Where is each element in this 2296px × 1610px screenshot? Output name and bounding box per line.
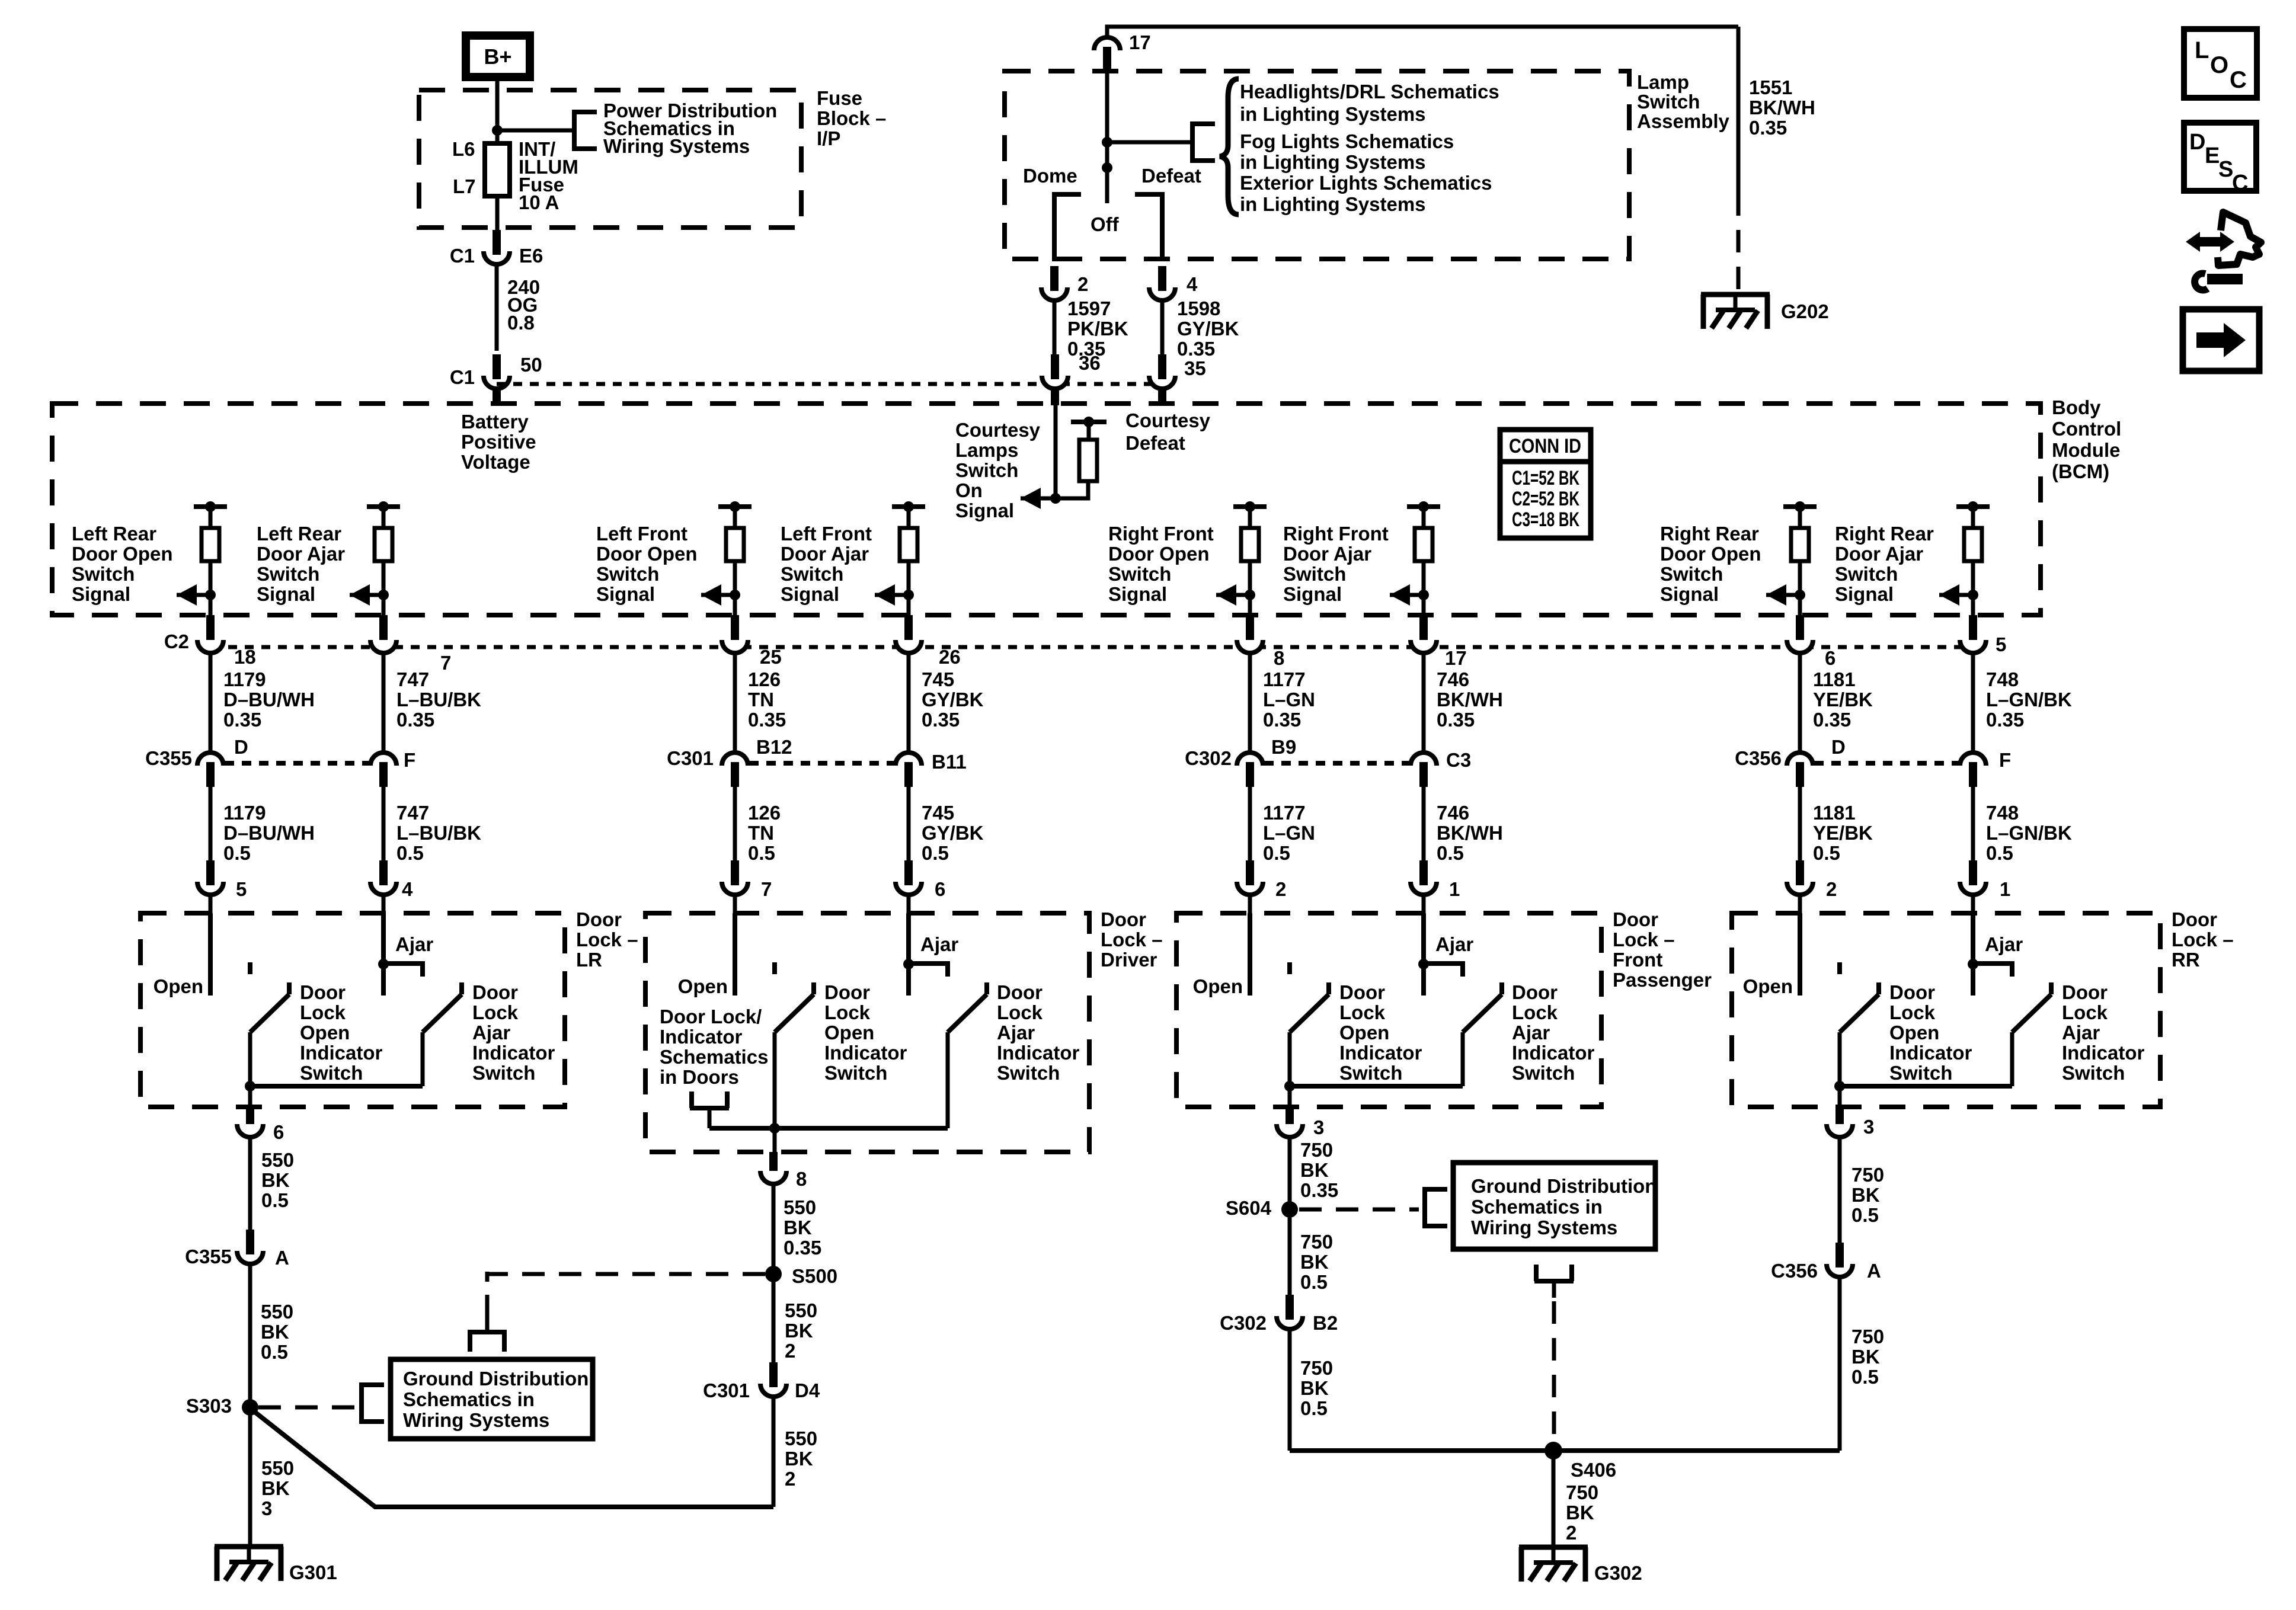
- open position tick (Driver): [772, 962, 777, 974]
- connector BCM pin 36: [1042, 354, 1068, 389]
- resistor column left rear door open switch signal: [177, 501, 227, 615]
- ajar position contact (Driver): [909, 964, 948, 977]
- label pin 8 below driver: [796, 1168, 807, 1190]
- svg-text:0.35: 0.35: [1986, 709, 2024, 731]
- svg-text:L6: L6: [452, 138, 475, 160]
- label pin 4 (door lock): [402, 878, 413, 900]
- svg-text:B2: B2: [1313, 1312, 1338, 1334]
- Body Control Module (BCM) dashed box: [52, 404, 2041, 615]
- label Door Lock/Indicator Schematics in Doors: [660, 1006, 768, 1088]
- svg-text:A: A: [1867, 1260, 1881, 1282]
- label Door Lock Ajar Indicator Switch: [997, 981, 1080, 1084]
- resistor column right rear door ajar switch signal: [1939, 501, 1990, 615]
- svg-text:BK: BK: [1300, 1159, 1329, 1181]
- label pin 7: [440, 652, 451, 674]
- dashed connector link 0: [225, 761, 369, 766]
- svg-text:TN: TN: [748, 689, 774, 710]
- pin stub C1-50 into BCM: [493, 386, 501, 405]
- svg-text:0.5: 0.5: [396, 842, 424, 864]
- svg-text:0.35: 0.35: [1300, 1179, 1338, 1201]
- label Door Lock Open Indicator Switch: [300, 981, 383, 1084]
- connector row D (right rear door ajar): [1960, 753, 1986, 787]
- door lock box Driver: [645, 913, 1089, 1152]
- dashed wire S500 reference v: [485, 1272, 490, 1315]
- svg-text:Schematics in: Schematics in: [403, 1388, 535, 1410]
- courtesy defeat pull-up bar: [1071, 420, 1107, 424]
- svg-text:in Lighting Systems: in Lighting Systems: [1240, 151, 1426, 173]
- svg-text:S500: S500: [792, 1265, 837, 1287]
- svg-text:YE/BK: YE/BK: [1813, 689, 1873, 710]
- svg-text:Open: Open: [1339, 1022, 1389, 1044]
- svg-text:Schematics: Schematics: [660, 1046, 768, 1068]
- svg-text:Signal: Signal: [781, 583, 839, 605]
- svg-text:2: 2: [785, 1340, 795, 1362]
- label G302: [1594, 1562, 1642, 1584]
- label Door Lock Open Indicator Switch: [1339, 981, 1422, 1084]
- wire left front door ajar row D to row E: [907, 787, 911, 864]
- svg-text:Ajar: Ajar: [1512, 1022, 1550, 1044]
- splice S604: [1281, 1201, 1298, 1218]
- wire 550 BK to C355 A: [248, 1137, 252, 1230]
- svg-text:BK/WH: BK/WH: [1437, 689, 1503, 710]
- svg-text:Switch: Switch: [1108, 563, 1171, 585]
- connector C355 pin A: [237, 1230, 263, 1264]
- svg-text:E6: E6: [519, 245, 543, 267]
- label F (C356): [1999, 749, 2011, 771]
- junction dot ajar wire (Driver): [903, 959, 914, 969]
- svg-text:Switch: Switch: [781, 563, 843, 585]
- svg-text:Switch: Switch: [1889, 1062, 1952, 1084]
- svg-text:Driver: Driver: [1101, 949, 1157, 971]
- svg-text:S303: S303: [186, 1395, 232, 1417]
- label C355 (A): [185, 1246, 232, 1267]
- label wire 126 TN 0.5: [748, 802, 781, 864]
- connector pin 3 (front passenger): [1277, 1124, 1303, 1137]
- svg-text:Switch: Switch: [1660, 563, 1723, 585]
- svg-text:7: 7: [761, 878, 772, 900]
- connector row D (left front door open): [722, 753, 748, 787]
- svg-text:Dome: Dome: [1023, 165, 1077, 187]
- svg-text:L–GN: L–GN: [1263, 689, 1315, 710]
- label 50: [520, 354, 542, 376]
- svg-text:C301: C301: [667, 747, 714, 769]
- svg-text:RR: RR: [2172, 949, 2200, 971]
- svg-text:BK/WH: BK/WH: [1437, 822, 1503, 844]
- svg-text:L–GN: L–GN: [1263, 822, 1315, 844]
- svg-text:I/P: I/P: [817, 127, 840, 149]
- wire left rear door ajar row C to row D: [382, 653, 386, 753]
- label Left Front Door Open Switch Signal: [596, 523, 698, 605]
- dome contact: [1054, 194, 1081, 261]
- resistor column right rear door open switch signal: [1766, 501, 1817, 615]
- junction dot switches (Driver): [769, 1123, 780, 1134]
- svg-text:in Lighting Systems: in Lighting Systems: [1240, 103, 1426, 125]
- door lock box LR: [140, 913, 565, 1107]
- label wire 550 BK 0.35: [784, 1196, 821, 1259]
- connector C1 pin E6: [484, 230, 510, 264]
- svg-text:Open: Open: [678, 975, 728, 997]
- wire pin 5 into door lock box: [209, 895, 213, 913]
- svg-text:1: 1: [1449, 878, 1460, 900]
- svg-text:Lock: Lock: [997, 1001, 1043, 1023]
- wire defeat resistor to junction: [1056, 481, 1088, 498]
- label Door Lock Ajar Indicator Switch: [1512, 981, 1595, 1084]
- svg-text:C: C: [2232, 171, 2248, 196]
- label Fuse Block - I/P: [817, 87, 886, 149]
- lamp switch junction dot upper: [1102, 137, 1112, 148]
- svg-text:BK: BK: [1566, 1502, 1594, 1523]
- label Ajar (RR): [1985, 933, 2023, 955]
- svg-text:Right Rear: Right Rear: [1660, 523, 1759, 545]
- svg-text:0.5: 0.5: [1263, 842, 1290, 864]
- label Right Front Door Ajar Switch Signal: [1283, 523, 1389, 605]
- svg-text:Open: Open: [1193, 975, 1243, 997]
- open position tick (RR): [1837, 962, 1842, 974]
- svg-text:Lock –: Lock –: [576, 929, 638, 950]
- svg-text:C1: C1: [450, 245, 475, 267]
- label 35: [1184, 357, 1206, 379]
- wire top feed to lamp switch: [1107, 27, 1738, 37]
- svg-text:25: 25: [760, 646, 782, 668]
- label pin 18: [234, 646, 256, 668]
- svg-text:126: 126: [748, 802, 781, 824]
- svg-text:Ajar: Ajar: [1435, 933, 1473, 955]
- junction dot switches (RR): [1834, 1081, 1845, 1092]
- wire pin 6 into door lock box: [907, 895, 911, 913]
- label wire 747 L–BU/BK 0.5: [396, 802, 481, 864]
- svg-text:Positive: Positive: [461, 431, 536, 453]
- splice S303: [242, 1399, 258, 1416]
- wire 1551 BK/WH: [1737, 27, 1741, 193]
- svg-text:17: 17: [1445, 647, 1467, 669]
- connector row D (left rear door ajar): [370, 753, 396, 787]
- wire ajar contact (Driver): [906, 913, 911, 996]
- label wire 750 BK 0.5 (RR upper): [1851, 1164, 1884, 1226]
- wire C302 B2 to bottom run: [1288, 1329, 1292, 1451]
- label S303: [186, 1395, 232, 1417]
- svg-text:BK: BK: [1851, 1346, 1880, 1368]
- pin stub right rear door open into BCM bottom: [1796, 615, 1804, 642]
- svg-text:1179: 1179: [223, 802, 266, 824]
- ground G302: [1519, 1547, 1588, 1582]
- label wire 748 L–GN/BK 0.35: [1986, 668, 2072, 731]
- svg-text:C1=52 BK: C1=52 BK: [1512, 467, 1579, 489]
- svg-text:C356: C356: [1771, 1260, 1818, 1282]
- junction dot switches (Passenger): [1284, 1081, 1295, 1092]
- svg-text:Door Open: Door Open: [1108, 543, 1210, 565]
- svg-text:BK: BK: [1300, 1251, 1329, 1273]
- svg-text:Indicator: Indicator: [997, 1042, 1080, 1064]
- splice S500: [765, 1266, 782, 1282]
- svg-text:Indicator: Indicator: [472, 1042, 555, 1064]
- label pin 6: [1825, 647, 1835, 669]
- svg-text:Defeat: Defeat: [1125, 432, 1185, 454]
- pin stub 8 below driver box: [769, 1152, 778, 1173]
- label D (C355): [234, 736, 248, 758]
- pin stub left front door ajar into BCM bottom: [904, 615, 913, 642]
- wire left rear door open row C to row D: [209, 653, 213, 753]
- label Courtesy Defeat: [1125, 409, 1211, 454]
- svg-text:Lock: Lock: [300, 1001, 346, 1023]
- bottom wire in box (LR): [250, 1084, 423, 1089]
- svg-text:Door: Door: [2172, 908, 2217, 930]
- svg-text:GY/BK: GY/BK: [922, 822, 984, 844]
- label G301: [289, 1561, 337, 1583]
- svg-text:Passenger: Passenger: [1613, 969, 1712, 991]
- svg-text:550: 550: [261, 1457, 294, 1479]
- svg-text:L–GN/BK: L–GN/BK: [1986, 689, 2072, 710]
- wire pin 7 into door lock box: [733, 895, 737, 913]
- wire right front door open row D to row E: [1248, 787, 1252, 864]
- connector door lock pin 6 (left front door ajar): [896, 860, 922, 895]
- icon box DESC: [2184, 123, 2256, 196]
- svg-text:Switch: Switch: [300, 1062, 363, 1084]
- label wire 750 BK 0.35: [1300, 1139, 1338, 1201]
- wire right rear door open row D to row E: [1798, 787, 1802, 864]
- label pin 1 (door lock): [1449, 878, 1460, 900]
- svg-text:Lock: Lock: [1512, 1001, 1558, 1023]
- svg-text:Courtesy: Courtesy: [1125, 409, 1211, 431]
- label C1 (E6): [450, 245, 475, 267]
- svg-text:Door: Door: [472, 981, 518, 1003]
- wire 240 OG 0.8: [495, 264, 499, 351]
- label S604: [1226, 1197, 1272, 1219]
- label B2: [1313, 1312, 1338, 1334]
- svg-text:Door: Door: [1889, 981, 1935, 1003]
- junction dot ajar wire (Passenger): [1418, 959, 1429, 969]
- door lock open indicator switch (LR): [250, 982, 289, 1086]
- connector C2 pin 17 (right front door ajar): [1411, 640, 1437, 653]
- connector lamp switch pin 4 (defeat): [1149, 266, 1175, 300]
- svg-text:Signal: Signal: [1835, 583, 1894, 605]
- label wire 748 L–GN/BK 0.5: [1986, 802, 2072, 864]
- svg-text:Ajar: Ajar: [997, 1022, 1035, 1044]
- svg-text:C355: C355: [185, 1246, 232, 1267]
- door lock ajar indicator switch (Passenger): [1463, 982, 1502, 1086]
- svg-text:Switch: Switch: [824, 1062, 887, 1084]
- svg-text:745: 745: [922, 668, 954, 690]
- svg-text:0.35: 0.35: [1437, 709, 1475, 731]
- svg-text:0.35: 0.35: [396, 709, 434, 731]
- label Off: [1091, 213, 1120, 235]
- wire to pin 8 (Driver): [773, 1128, 777, 1152]
- label Courtesy Lamps Switch On Signal: [955, 419, 1041, 521]
- label wire 1179 D–BU/WH 0.35: [223, 668, 315, 731]
- label Open (LR): [154, 975, 203, 997]
- dashed connector link 3: [1814, 761, 1959, 766]
- connector door lock pin 5 (left rear door open): [197, 860, 223, 895]
- svg-text:Voltage: Voltage: [461, 451, 530, 473]
- label wire 750 BK 0.5 (FP lower): [1300, 1357, 1333, 1419]
- svg-text:Lock: Lock: [824, 1001, 871, 1023]
- label Door Lock - LR: [576, 908, 638, 971]
- svg-text:1597: 1597: [1067, 297, 1111, 319]
- svg-text:Ajar: Ajar: [395, 933, 433, 955]
- svg-text:0.35: 0.35: [1749, 117, 1787, 139]
- svg-text:C356: C356: [1735, 747, 1782, 769]
- label Lamp Switch Assembly: [1637, 71, 1730, 132]
- svg-text:Door: Door: [1339, 981, 1385, 1003]
- connector lamp switch pin 2 (dome): [1041, 266, 1067, 300]
- label Open (Passenger): [1193, 975, 1243, 997]
- label 1551 BK/WH 0.35: [1749, 76, 1815, 139]
- svg-text:0.5: 0.5: [261, 1189, 289, 1211]
- svg-text:S604: S604: [1226, 1197, 1272, 1219]
- door lock ajar indicator switch (LR): [423, 982, 462, 1086]
- wire right rear door ajar row C to row D: [1971, 653, 1975, 753]
- door lock ajar indicator switch (Driver): [948, 982, 987, 1128]
- svg-text:0.5: 0.5: [1813, 842, 1840, 864]
- door lock open indicator switch (Driver): [775, 982, 814, 1128]
- svg-text:Door Open: Door Open: [596, 543, 698, 565]
- svg-text:D4: D4: [795, 1379, 820, 1401]
- connector door lock pin 1 (right front door ajar): [1411, 860, 1437, 895]
- svg-text:Lock –: Lock –: [2172, 929, 2234, 950]
- wire open contact (Driver): [733, 913, 737, 996]
- svg-text:E: E: [2205, 143, 2220, 168]
- pin stub left rear door open into BCM bottom: [206, 615, 215, 642]
- junction dot courtesy signal: [1050, 493, 1061, 504]
- label wire 550 BK 0.5 (LR upper): [261, 1149, 294, 1211]
- label C2: [164, 630, 189, 652]
- wire left front door ajar row C to row D: [907, 653, 911, 753]
- pin stub right front door open into BCM bottom: [1246, 615, 1254, 642]
- label wire 1181 YE/BK 0.5: [1813, 802, 1873, 864]
- svg-text:BK: BK: [1300, 1377, 1329, 1399]
- svg-text:F: F: [404, 749, 415, 771]
- svg-text:Indicator: Indicator: [660, 1026, 743, 1048]
- wire pin 1 into door lock box: [1422, 895, 1426, 913]
- svg-text:0.5: 0.5: [922, 842, 949, 864]
- label Ajar (Driver): [920, 933, 958, 955]
- label C302 (B9): [1185, 747, 1232, 769]
- defeat contact: [1135, 194, 1162, 261]
- svg-text:5: 5: [236, 878, 247, 900]
- label wire 1179 D–BU/WH 0.5: [223, 802, 315, 864]
- fuse INT/ILLUM 10A: [485, 143, 510, 196]
- svg-text:On: On: [955, 479, 983, 501]
- label Battery Positive Voltage: [461, 411, 536, 473]
- connector C2 pin 7 (left rear door ajar): [370, 640, 396, 653]
- dashed reference from S604: [1299, 1208, 1419, 1212]
- svg-text:746: 746: [1437, 668, 1469, 690]
- svg-text:S406: S406: [1571, 1459, 1616, 1481]
- svg-text:Fuse: Fuse: [817, 87, 862, 109]
- svg-text:L: L: [2195, 37, 2209, 63]
- svg-text:Block –: Block –: [817, 107, 886, 129]
- connector C2 pin 25 (left front door open): [722, 640, 748, 653]
- svg-text:Exterior Lights Schematics: Exterior Lights Schematics: [1240, 172, 1492, 194]
- label Left Rear Door Open Switch Signal: [72, 523, 173, 605]
- svg-text:750: 750: [1851, 1164, 1884, 1186]
- svg-text:Left Front: Left Front: [596, 523, 687, 545]
- svg-text:PK/BK: PK/BK: [1067, 318, 1128, 340]
- svg-text:GY/BK: GY/BK: [1177, 318, 1239, 340]
- icon box LOC: [2184, 29, 2257, 98]
- label E6: [519, 245, 543, 267]
- label C1 (50): [450, 366, 475, 388]
- pin stub 3 below RR box: [1835, 1106, 1844, 1127]
- svg-text:Right Rear: Right Rear: [1835, 523, 1934, 545]
- svg-text:Module: Module: [2052, 439, 2120, 461]
- label pin 25: [760, 646, 782, 668]
- label A (C355): [275, 1247, 289, 1269]
- dashed wire to G202: [1737, 193, 1741, 292]
- svg-text:550: 550: [261, 1149, 294, 1171]
- wire open contact (LR): [208, 913, 213, 996]
- svg-text:Defeat: Defeat: [1141, 165, 1201, 187]
- door lock box Passenger: [1176, 913, 1601, 1107]
- svg-text:Indicator: Indicator: [300, 1042, 383, 1064]
- svg-text:17: 17: [1129, 31, 1151, 53]
- wire left front door open row D to row E: [733, 787, 737, 864]
- svg-text:Signal: Signal: [1660, 583, 1719, 605]
- svg-text:Door Ajar: Door Ajar: [1835, 543, 1923, 565]
- wire to pin 3 (Passenger): [1288, 1086, 1292, 1107]
- svg-text:D: D: [234, 736, 248, 758]
- svg-text:O: O: [2210, 52, 2228, 78]
- wire junction to power distribution reference: [497, 129, 574, 133]
- lamp switch junction dot lower: [1102, 162, 1112, 173]
- svg-text:748: 748: [1986, 802, 2019, 824]
- connector pin 6 (LR): [237, 1124, 263, 1137]
- label pin 3 below RR: [1863, 1116, 1874, 1138]
- svg-text:Lock: Lock: [1339, 1001, 1386, 1023]
- svg-text:Schematics in: Schematics in: [1471, 1196, 1603, 1218]
- wire through fuse: [495, 130, 500, 228]
- label Right Rear Door Open Switch Signal: [1660, 523, 1761, 605]
- label C356 (D): [1735, 747, 1782, 769]
- label Open (Driver): [678, 975, 728, 997]
- svg-text:1177: 1177: [1263, 668, 1306, 690]
- label Door Lock Ajar Indicator Switch: [472, 981, 555, 1084]
- off-page bracket S303 ground distribution: [362, 1382, 384, 1424]
- svg-text:0.35: 0.35: [922, 709, 960, 731]
- svg-text:Ground Distribution: Ground Distribution: [403, 1368, 589, 1390]
- connector C2 pin 18 (left rear door open): [197, 640, 223, 653]
- bottom wire in box (Passenger): [1290, 1084, 1463, 1089]
- svg-text:Switch: Switch: [1835, 563, 1898, 585]
- svg-text:Switch: Switch: [596, 563, 659, 585]
- wire ajar contact (LR): [381, 913, 386, 996]
- svg-text:750: 750: [1300, 1357, 1333, 1379]
- label Ground Distribution Schematics in Wiring Systems (right): [1471, 1175, 1657, 1238]
- pin stub left rear door ajar into BCM bottom: [379, 615, 388, 642]
- svg-text:0.5: 0.5: [1851, 1366, 1879, 1388]
- label C301 (B12): [667, 747, 714, 769]
- connector C302 pin B2: [1277, 1295, 1303, 1329]
- svg-text:6: 6: [1825, 647, 1835, 669]
- pin stub 6 below LR box: [246, 1106, 254, 1127]
- off-page bracket door lock schematics: [690, 1092, 729, 1128]
- label Right Rear Door Ajar Switch Signal: [1835, 523, 1934, 605]
- wire pin 3 to S604: [1288, 1137, 1292, 1298]
- svg-text:Door Ajar: Door Ajar: [1283, 543, 1371, 565]
- svg-text:0.35: 0.35: [1813, 709, 1851, 731]
- svg-text:Door: Door: [997, 981, 1043, 1003]
- label Power Distribution Schematics in Wiring Systems: [603, 100, 777, 157]
- svg-text:2: 2: [1077, 273, 1088, 295]
- label wire 750 BK 0.5 (FP mid): [1300, 1231, 1333, 1293]
- label wire 550 BK 2 (upper): [785, 1299, 817, 1362]
- svg-text:Open: Open: [824, 1022, 874, 1044]
- svg-text:Switch: Switch: [955, 459, 1018, 481]
- wire S303 diagonal and bottom run: [252, 1410, 773, 1507]
- svg-text:747: 747: [396, 802, 429, 824]
- fuse block I/P dashed box: [419, 90, 801, 228]
- svg-text:Assembly: Assembly: [1637, 110, 1730, 132]
- svg-text:3: 3: [1863, 1116, 1874, 1138]
